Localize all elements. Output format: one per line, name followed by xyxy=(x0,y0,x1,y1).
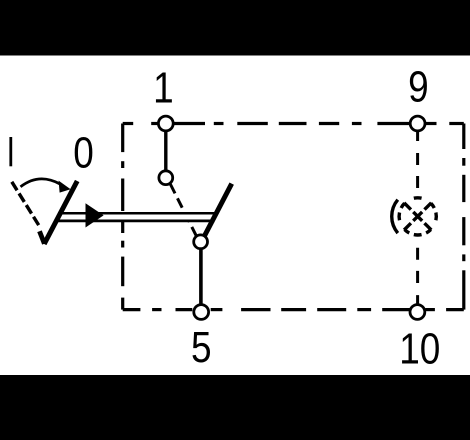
dash-dot enclosure box: left edge xyxy=(121,124,124,310)
svg-text:9: 9 xyxy=(408,61,429,111)
top black bar xyxy=(0,0,470,56)
bottom black bar xyxy=(0,375,470,440)
arc arrowhead xyxy=(59,181,71,193)
label I xyxy=(9,137,12,166)
switch lever (dashed, position I) xyxy=(12,182,39,225)
actuator rod lower line xyxy=(57,220,215,223)
white gap of actuator rod xyxy=(60,214,215,220)
arrowhead on actuator rod xyxy=(86,203,104,227)
svg-text:1: 1 xyxy=(153,62,174,112)
dash-dot enclosure box: top edge xyxy=(123,122,464,125)
lamp X cross xyxy=(404,203,431,230)
svg-text:5: 5 xyxy=(191,322,212,372)
switch lever (solid, position 0) xyxy=(44,181,77,244)
terminal 1 contact circle xyxy=(158,116,173,131)
dash-dot enclosure box: right edge xyxy=(462,124,465,310)
wire: dashed alternate-position link (moving contact to pivot) xyxy=(170,184,196,237)
actuator rod upper line xyxy=(58,212,216,215)
wire: terminal 1 to moving contact xyxy=(164,124,167,178)
svg-text:10: 10 xyxy=(399,323,440,373)
moving contact circle xyxy=(159,171,173,185)
lamp reflector arc xyxy=(392,200,398,233)
wire: dashed line lamp to terminal 10 xyxy=(416,248,419,310)
arc arrow I to 0 xyxy=(21,179,61,187)
wire: dashed line terminal 9 to lamp xyxy=(416,131,419,194)
lamp L1 (dashed illumination lamp symbol) xyxy=(392,198,437,235)
dash-dot enclosure box: bottom edge xyxy=(123,308,464,311)
lamp dashed circle xyxy=(399,198,436,235)
lever V foot xyxy=(40,231,45,244)
terminal 9 contact circle xyxy=(410,116,425,131)
switch lever right (contact bridge) xyxy=(204,184,232,237)
wire: pivot contact to terminal 5 xyxy=(199,242,203,312)
svg-text:0: 0 xyxy=(73,127,94,177)
terminal 5 contact circle xyxy=(194,305,209,320)
pivot contact circle xyxy=(194,235,208,249)
terminal 10 contact circle xyxy=(410,305,425,320)
